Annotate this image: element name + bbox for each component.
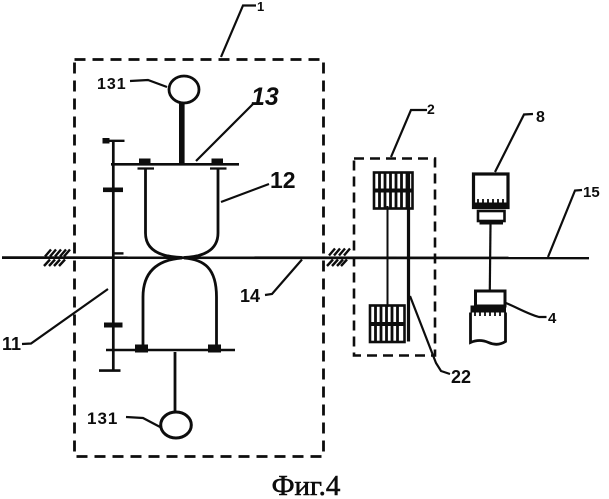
left support bar top tee xyxy=(103,140,125,142)
label 8 leader xyxy=(495,114,533,172)
motor 8 comb band xyxy=(474,203,508,209)
top spar line xyxy=(111,163,239,166)
bearing hatch middle xyxy=(327,249,350,267)
lower stem xyxy=(174,352,177,413)
left support bar vertical xyxy=(112,141,115,371)
wire from motor 8 down through axis xyxy=(489,225,492,292)
foot block right on lower spar xyxy=(208,345,221,353)
upper cup left wall xyxy=(146,168,183,258)
device 4 top cap xyxy=(476,291,506,306)
knob circle top 131 xyxy=(169,76,199,103)
wire main horizontal shaft axis xyxy=(2,256,589,259)
left support bar top tee block xyxy=(103,138,110,144)
left support bar bottom tee xyxy=(99,369,121,372)
svg-text:14: 14 xyxy=(240,286,260,306)
dashed box 1 xyxy=(75,60,324,457)
thick vertical stem top xyxy=(179,102,185,164)
label 14 leader xyxy=(265,260,302,296)
upper cup left flange xyxy=(138,167,155,169)
label 131 bottom leader xyxy=(126,417,162,428)
label 13 leader xyxy=(196,104,253,161)
svg-text:15: 15 xyxy=(583,184,600,201)
svg-text:2: 2 xyxy=(427,101,435,117)
motor 8 collar base xyxy=(480,220,504,225)
svg-text:13: 13 xyxy=(251,83,279,111)
label 15 leader xyxy=(548,190,582,257)
lower bell right wall xyxy=(184,258,217,346)
coupling crossbar lower xyxy=(104,323,123,328)
foot block right on top spar xyxy=(212,159,224,165)
lower bell left wall xyxy=(143,258,182,346)
foot block left on top spar xyxy=(139,159,151,165)
svg-text:131: 131 xyxy=(87,409,118,428)
svg-text:4: 4 xyxy=(548,310,557,327)
label 11 leader xyxy=(22,289,108,344)
svg-text:8: 8 xyxy=(536,109,545,126)
device 4 body xyxy=(471,313,506,345)
svg-text:1: 1 xyxy=(257,0,264,14)
motor 8 lower collar xyxy=(478,211,505,221)
knob circle bottom 131 xyxy=(161,412,192,438)
upper cup right flange xyxy=(210,167,227,169)
hatched block top in box 2 xyxy=(374,173,413,209)
small tick at axis on support bar xyxy=(114,252,124,254)
svg-text:131: 131 xyxy=(97,76,127,93)
label 22 leader xyxy=(410,296,450,374)
label 2 leader xyxy=(391,110,427,157)
bearing hatch left xyxy=(44,250,70,267)
lower spar line xyxy=(106,349,235,352)
label 1 leader xyxy=(221,6,256,58)
label 4 leader xyxy=(506,303,547,317)
belt line left xyxy=(387,206,389,307)
coupling crossbar upper xyxy=(103,188,123,193)
upper cup right wall xyxy=(184,168,219,258)
svg-text:11: 11 xyxy=(2,334,21,354)
hatched block bottom in box 2 xyxy=(370,306,405,343)
svg-text:22: 22 xyxy=(451,367,471,387)
svg-text:Фиг.4: Фиг.4 xyxy=(272,470,341,499)
label 131 top leader xyxy=(130,80,167,87)
belt line right xyxy=(407,173,410,342)
motor 8 body xyxy=(474,174,509,208)
svg-text:12: 12 xyxy=(270,167,296,193)
dashed box 2 xyxy=(354,159,435,356)
device 4 comb band xyxy=(471,306,507,313)
foot block left on lower spar xyxy=(135,345,148,353)
label 12 leader xyxy=(221,184,269,202)
